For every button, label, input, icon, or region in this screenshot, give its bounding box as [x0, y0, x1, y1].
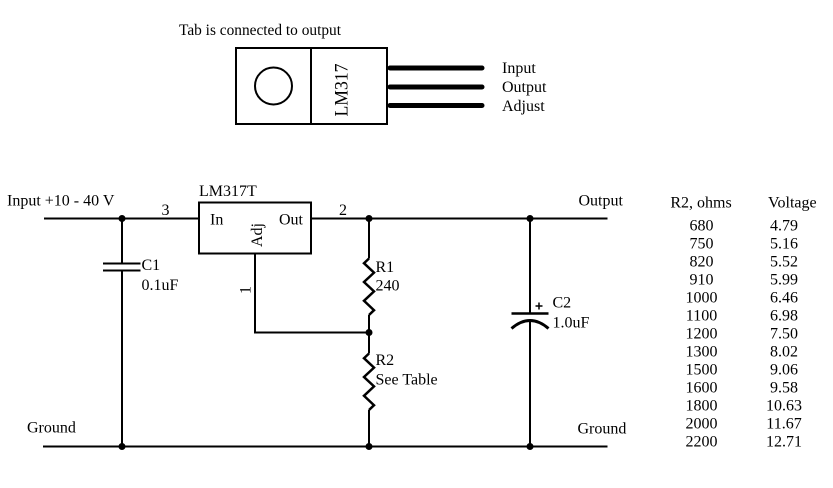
- table row 1500 / 9.06: [686, 362, 799, 379]
- svg-text:2200: 2200: [686, 434, 718, 451]
- note: Tab is connected to output: [179, 22, 342, 39]
- svg-text:6.98: 6.98: [770, 308, 798, 325]
- pin number 2: [339, 202, 347, 219]
- svg-text:Adj: Adj: [249, 223, 266, 247]
- svg-text:See Table: See Table: [376, 372, 438, 389]
- table header Voltage: [768, 195, 817, 212]
- table row 680 / 4.79: [690, 218, 799, 235]
- svg-text:Output: Output: [502, 79, 547, 96]
- svg-text:0.1uF: 0.1uF: [142, 277, 179, 294]
- svg-text:9.58: 9.58: [770, 380, 798, 397]
- svg-text:2000: 2000: [686, 416, 718, 433]
- table row 2200 / 12.71: [686, 434, 803, 451]
- capacitor C2 polarity plus sign: [536, 303, 543, 310]
- label C2: [553, 295, 572, 312]
- wire ground rail: [43, 446, 608, 448]
- svg-text:Output: Output: [579, 193, 624, 210]
- junction output rail / R1: [366, 215, 373, 222]
- value label 0.1uF: [142, 277, 179, 294]
- svg-text:1800: 1800: [686, 398, 718, 415]
- wire adjust pin (vertical + horizontal to R1/R2 node): [254, 254, 369, 333]
- svg-text:240: 240: [376, 278, 400, 295]
- svg-text:6.46: 6.46: [770, 290, 798, 307]
- capacitor C2 curved negative plate: [512, 321, 549, 329]
- capacitor C1 bottom lead wire: [121, 271, 123, 447]
- package lead Input: [390, 66, 482, 71]
- svg-text:R1: R1: [376, 259, 395, 276]
- node label Output: [579, 193, 624, 210]
- value label 240: [376, 278, 400, 295]
- svg-text:1000: 1000: [686, 290, 718, 307]
- svg-text:R2, ohms: R2, ohms: [670, 195, 731, 212]
- svg-text:In: In: [210, 212, 223, 229]
- svg-text:1200: 1200: [686, 326, 718, 343]
- label R1: [376, 259, 395, 276]
- svg-text:Out: Out: [279, 212, 304, 229]
- svg-text:1.0uF: 1.0uF: [553, 315, 590, 332]
- junction input rail / C1: [119, 215, 126, 222]
- svg-text:5.52: 5.52: [770, 254, 798, 271]
- wire output rail: [312, 218, 608, 220]
- svg-text:Input +10 - 40 V: Input +10 - 40 V: [7, 193, 115, 210]
- package tab divider line: [310, 47, 312, 125]
- junction output rail / C2: [527, 215, 534, 222]
- capacitor C1 top lead wire: [121, 219, 123, 264]
- resistor R2: [364, 333, 374, 447]
- svg-text:8.02: 8.02: [770, 344, 798, 361]
- label R2: [376, 352, 395, 369]
- value label See Table: [376, 372, 438, 389]
- table row 1200 / 7.50: [686, 326, 799, 343]
- svg-text:5.16: 5.16: [770, 236, 798, 253]
- wire input rail: [44, 218, 198, 220]
- table row 1300 / 8.02: [686, 344, 799, 361]
- svg-text:C1: C1: [142, 257, 161, 274]
- svg-text:7.50: 7.50: [770, 326, 798, 343]
- svg-text:1600: 1600: [686, 380, 718, 397]
- svg-text:1500: 1500: [686, 362, 718, 379]
- pin label Out: [279, 212, 304, 229]
- svg-text:1300: 1300: [686, 344, 718, 361]
- svg-text:R2: R2: [376, 352, 395, 369]
- junction ground / C2: [527, 443, 534, 450]
- table row 1600 / 9.58: [686, 380, 799, 397]
- table row 1100 / 6.98: [686, 308, 798, 325]
- svg-text:C2: C2: [553, 295, 572, 312]
- junction ground / C1: [119, 443, 126, 450]
- svg-text:Adjust: Adjust: [502, 98, 545, 115]
- svg-text:820: 820: [690, 254, 714, 271]
- capacitor C1 plates: [103, 264, 141, 271]
- regulator U1 LM317T box: [199, 203, 311, 254]
- table row 1800 / 10.63: [686, 398, 803, 415]
- svg-text:Ground: Ground: [578, 421, 627, 438]
- package lead Output: [390, 85, 482, 90]
- label C1: [142, 257, 161, 274]
- capacitor C2 positive plate: [512, 312, 549, 315]
- svg-text:910: 910: [690, 272, 714, 289]
- pin label Adjust: [502, 98, 545, 115]
- package label LM317: [332, 64, 353, 117]
- table row 820 / 5.52: [690, 254, 799, 271]
- svg-text:LM317: LM317: [332, 64, 353, 117]
- svg-text:1100: 1100: [686, 308, 717, 325]
- package mounting hole: [255, 68, 292, 105]
- table row 1000 / 6.46: [686, 290, 799, 307]
- svg-text:9.06: 9.06: [770, 362, 798, 379]
- package U1 TO-220 body outline: [236, 48, 387, 124]
- table row 750 / 5.16: [690, 236, 799, 253]
- pin label Adj: [249, 223, 266, 247]
- svg-text:4.79: 4.79: [770, 218, 798, 235]
- node label Ground left: [27, 420, 76, 437]
- svg-text:1: 1: [238, 286, 255, 294]
- label LM317T: [199, 183, 257, 200]
- svg-text:Tab is connected to output: Tab is connected to output: [179, 22, 342, 39]
- capacitor C2 top lead wire: [529, 219, 531, 314]
- junction R1 / R2 / adjust wire: [366, 329, 373, 336]
- value label 1.0uF: [553, 315, 590, 332]
- capacitor C2 bottom lead wire: [529, 322, 531, 447]
- svg-text:680: 680: [690, 218, 714, 235]
- table header R2, ohms: [670, 195, 731, 212]
- svg-text:3: 3: [162, 202, 170, 219]
- svg-text:750: 750: [690, 236, 714, 253]
- pin label In: [210, 212, 223, 229]
- node label Input +10 - 40 V: [7, 193, 115, 210]
- pin label Output: [502, 79, 547, 96]
- svg-text:11.67: 11.67: [766, 416, 801, 433]
- svg-text:12.71: 12.71: [766, 434, 802, 451]
- resistor R1: [364, 219, 374, 333]
- pin label Input: [502, 60, 536, 77]
- table row 2000 / 11.67: [686, 416, 802, 433]
- node label Ground right: [578, 421, 627, 438]
- table row 910 / 5.99: [690, 272, 799, 289]
- svg-text:Input: Input: [502, 60, 536, 77]
- svg-text:Voltage: Voltage: [768, 195, 817, 212]
- svg-text:5.99: 5.99: [770, 272, 798, 289]
- junction ground / R2: [366, 443, 373, 450]
- pin number 1: [238, 286, 255, 294]
- package lead Adjust: [390, 103, 482, 108]
- svg-text:10.63: 10.63: [766, 398, 802, 415]
- svg-text:2: 2: [339, 202, 347, 219]
- svg-text:Ground: Ground: [27, 420, 76, 437]
- pin number 3: [162, 202, 170, 219]
- svg-text:LM317T: LM317T: [199, 183, 257, 200]
